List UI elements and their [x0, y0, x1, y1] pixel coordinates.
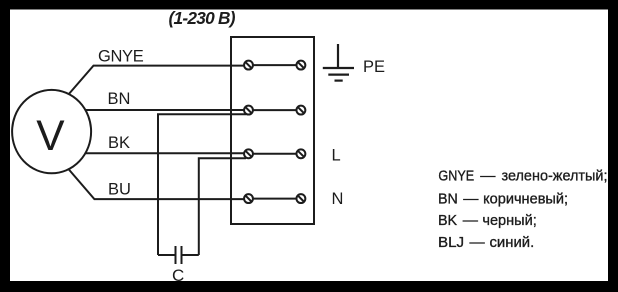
svg-text:C: C	[172, 266, 184, 285]
terminal screw row4 left	[244, 194, 253, 203]
capacitor C1	[158, 246, 199, 264]
terminal screw row1 left	[244, 61, 253, 70]
terminal screw row3 right	[296, 149, 305, 158]
wire capacitor branch to row3	[199, 158, 246, 255]
svg-text:BN: BN	[108, 90, 131, 108]
wire BN	[83, 109, 248, 111]
svg-text:(1-230 В): (1-230 В)	[169, 8, 236, 28]
terminal block X1	[231, 37, 314, 224]
ground PE symbol	[323, 44, 354, 81]
terminal row 4 link wire	[249, 198, 301, 200]
terminal row 1 link wire	[249, 64, 301, 66]
svg-text:BN—коричневый;: BN—коричневый;	[438, 191, 568, 208]
svg-text:BU: BU	[108, 181, 131, 199]
svg-text:PE: PE	[363, 58, 385, 76]
wire BK	[83, 152, 248, 154]
terminal screw row2 right	[296, 106, 305, 115]
terminal screw row4 right	[296, 194, 305, 203]
terminal screw row3 left	[244, 149, 253, 158]
terminal row 3 link wire	[249, 153, 301, 155]
terminal screw row2 left	[244, 106, 253, 115]
wire BU	[68, 169, 248, 200]
wire GNYE	[68, 66, 248, 95]
terminal row 2 link wire	[249, 109, 301, 111]
wire capacitor branch to row2	[158, 114, 246, 255]
svg-text:GNYE: GNYE	[98, 48, 144, 66]
svg-text:GNYE—зелено-желтый;: GNYE—зелено-желтый;	[438, 168, 607, 185]
terminal screw row1 right	[296, 61, 305, 70]
svg-text:BK: BK	[108, 134, 130, 152]
svg-text:N: N	[332, 190, 344, 208]
svg-text:BK—черный;: BK—черный;	[438, 212, 537, 229]
svg-text:V: V	[36, 113, 65, 160]
svg-text:L: L	[332, 146, 341, 164]
voltmeter V1	[12, 90, 91, 173]
